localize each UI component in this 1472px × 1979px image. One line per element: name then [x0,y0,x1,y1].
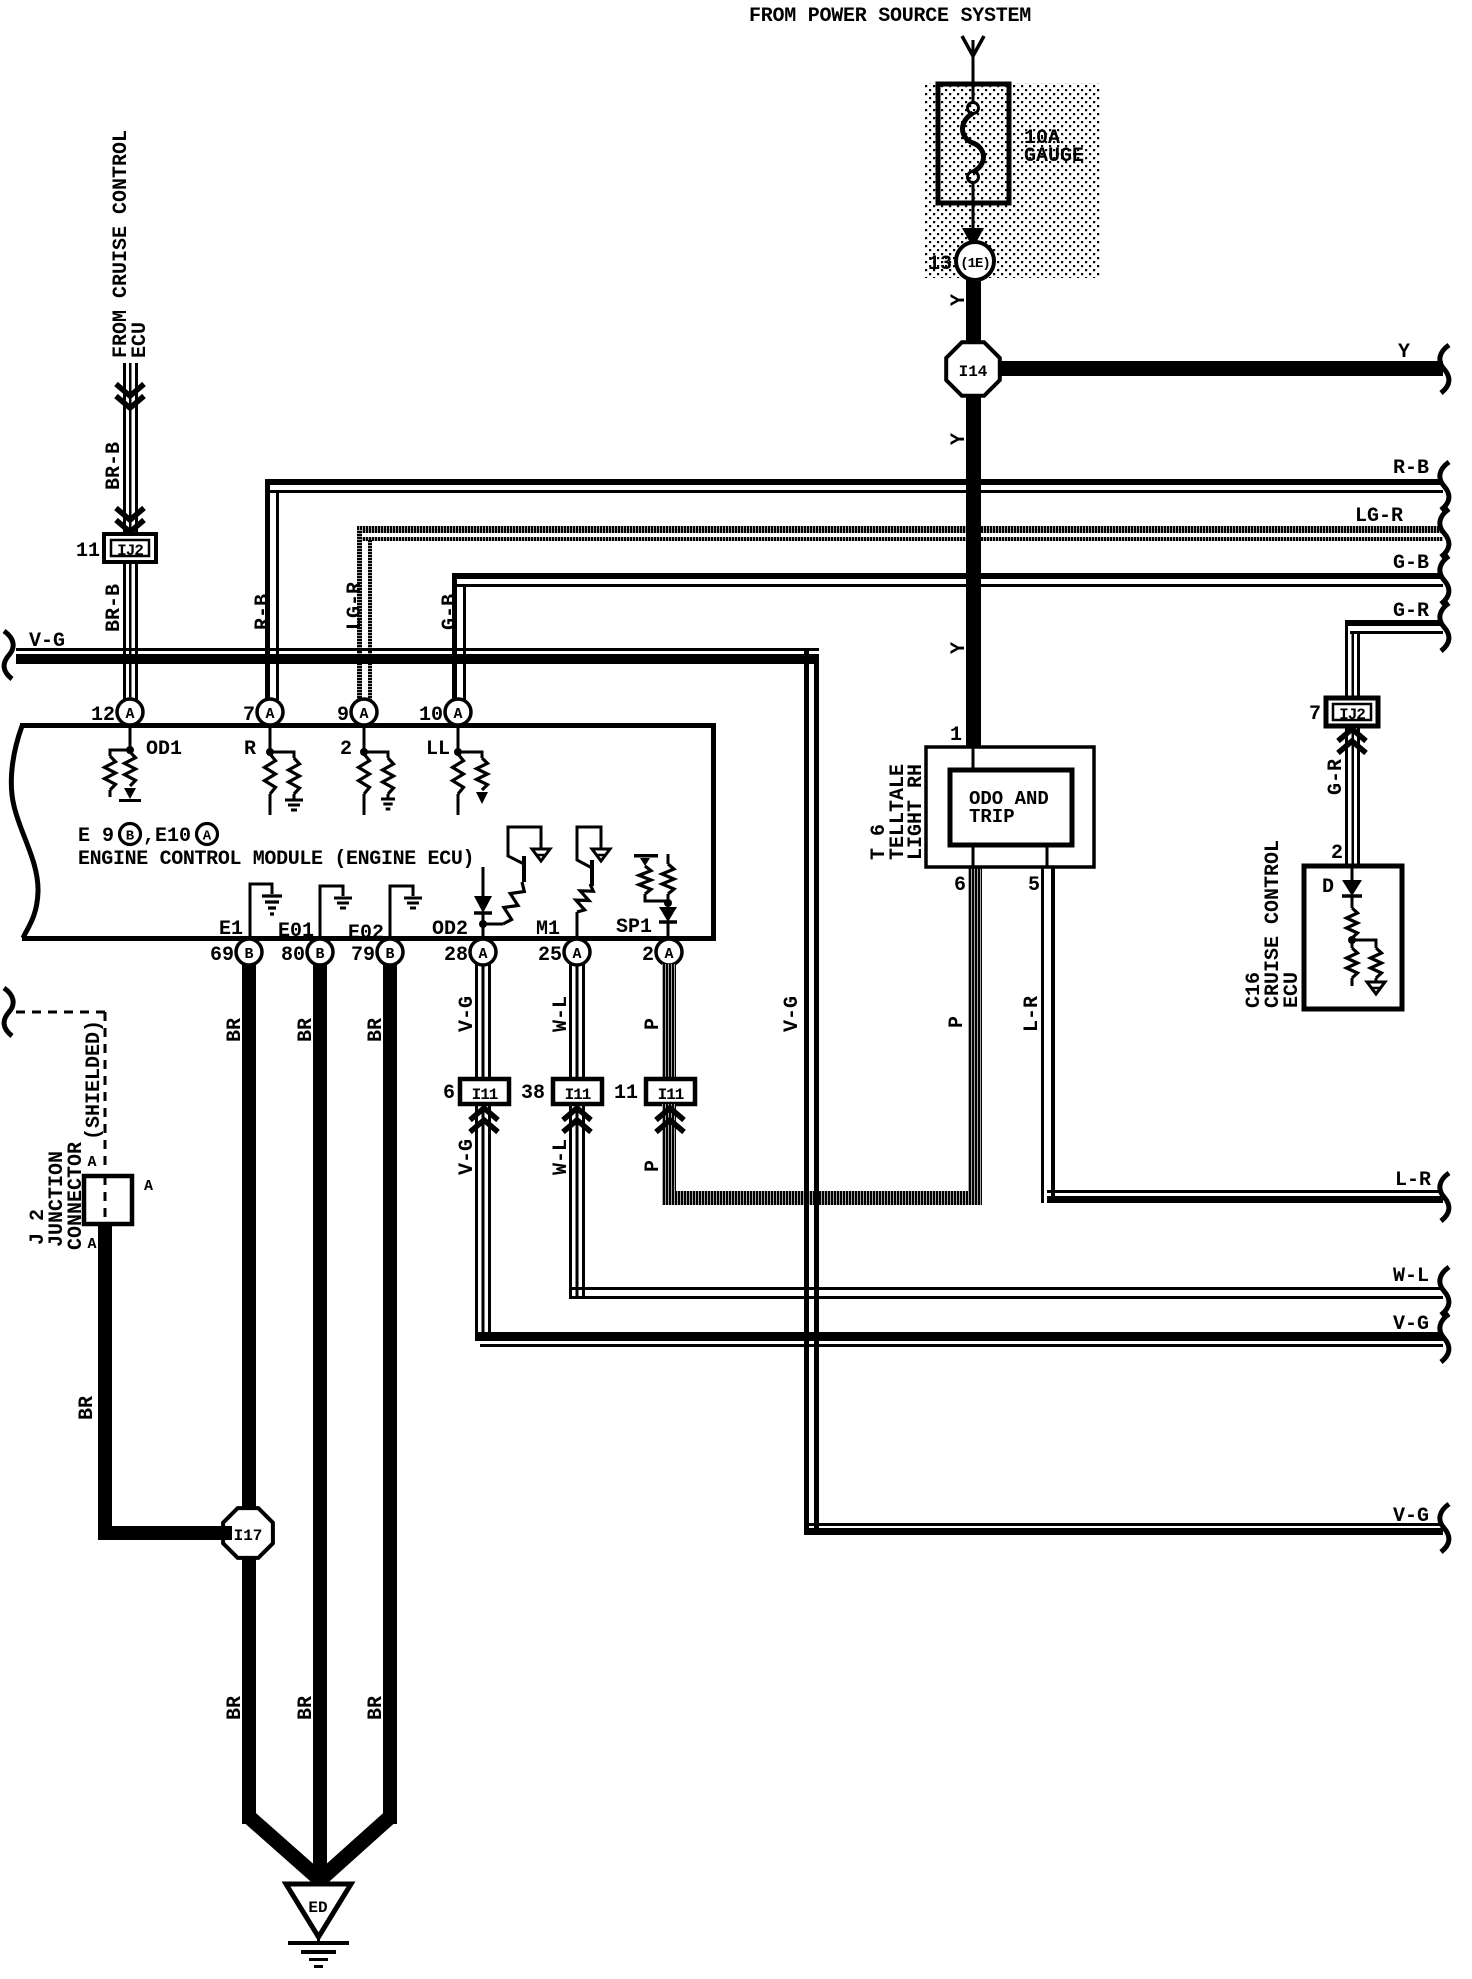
svg-text:E1: E1 [219,918,243,941]
svg-text:IJ2: IJ2 [117,542,143,560]
svg-text:FROM POWER SOURCE SYSTEM: FROM POWER SOURCE SYSTEM [749,5,1031,28]
svg-text:E01: E01 [278,920,314,943]
svg-text:G-R: G-R [1393,600,1429,623]
svg-text:L-R: L-R [1395,1169,1431,1192]
svg-text:G-B: G-B [439,594,462,630]
svg-text:12: 12 [91,704,115,727]
svg-text:80: 80 [281,944,305,967]
wire BR: J2 down to I17 [98,1224,112,1540]
svg-text:Y: Y [1398,341,1410,364]
ECU top pin 7 (A) [269,723,272,752]
svg-text:(SHIELDED): (SHIELDED) [83,1020,106,1140]
svg-text:BR: BR [295,1696,318,1720]
svg-text:A: A [87,1236,96,1253]
wire L-R from telltale pin 5 [1041,867,1044,1203]
odo and trip lamp box [950,770,1072,845]
svg-text:A: A [87,1154,96,1171]
svg-text:I17: I17 [234,1527,263,1545]
svg-text:BR: BR [76,1396,99,1420]
svg-text:28: 28 [444,944,468,967]
svg-text:I11: I11 [472,1086,498,1104]
svg-text:ECU: ECU [129,322,152,358]
shield dashed line [16,1011,105,1014]
svg-text:5: 5 [1028,874,1040,897]
svg-text:11: 11 [614,1082,638,1105]
svg-text:D: D [1322,876,1334,899]
svg-text:(1E): (1E) [960,256,990,272]
wire P from pin 2 through junction I11 (11) [662,964,676,1079]
wire P horizontal to telltale [662,1191,982,1205]
svg-text:BR: BR [365,1696,388,1720]
svg-text:A: A [203,829,212,845]
svg-text:ENGINE CONTROL MODULE (ENGINE: ENGINE CONTROL MODULE (ENGINE ECU) [78,848,474,871]
svg-text:ECU: ECU [1281,972,1304,1008]
wire: feed from power source into fuse (arrow down) [962,36,984,56]
diode inside cruise ECU [1351,866,1354,880]
svg-text:BR: BR [295,1018,318,1042]
svg-text:V-G: V-G [456,1139,479,1175]
wire: fuse to connector 1E (arrow) [972,203,975,232]
svg-text:Y: Y [948,294,971,306]
wire BR from pin 79 down to ED [383,964,397,1824]
svg-text:OD2: OD2 [432,918,468,941]
shaded region around fuse [924,83,1100,278]
wire Y: 1E down to junction I14 [966,279,981,342]
svg-text:BR: BR [224,1696,247,1720]
svg-text:A: A [478,946,487,963]
svg-text:2: 2 [642,944,654,967]
svg-text:9: 9 [337,704,349,727]
svg-text:LG-R: LG-R [344,582,367,630]
svg-text:ED: ED [308,1899,327,1917]
svg-text:38: 38 [521,1082,545,1105]
wire V-G: long vertical down [804,648,809,1530]
svg-text:Y: Y [948,642,971,654]
svg-text:LG-R: LG-R [1355,505,1403,528]
svg-text:A: A [572,946,581,963]
svg-text:P: P [642,1160,665,1172]
svg-text:GAUGE: GAUGE [1024,145,1084,168]
svg-text:A: A [265,706,274,723]
svg-text:B: B [315,946,324,963]
svg-text:A: A [453,706,462,723]
svg-text:11: 11 [76,540,100,563]
svg-text:13: 13 [928,253,952,276]
ECU top pin 9 (A) [363,723,366,752]
svg-text:R-B: R-B [252,594,275,630]
engine control module box [20,723,716,728]
svg-text:V-G: V-G [456,996,479,1032]
fuse 10A GAUGE [938,84,1009,203]
wire BR-B: IJ2 down to ECU pin 12 [123,562,126,700]
svg-text:10: 10 [419,704,443,727]
svg-text:6: 6 [954,874,966,897]
svg-text:A: A [144,1178,153,1195]
svg-text:TRIP: TRIP [969,806,1015,828]
wire G-R: IJ2 down to cruise control ECU pin 2 [1345,726,1348,866]
svg-text:W-L: W-L [1393,1265,1429,1288]
ground ED [286,1884,351,1937]
svg-text:B: B [385,946,394,963]
wire BR-B: from cruise ECU down to IJ2 (11) [123,363,126,533]
wire V-G: from left edge to long vertical [4,631,13,679]
svg-text:V-G: V-G [781,996,804,1032]
ECU top pin 12 (A) [129,723,132,752]
resistor inside cruise ECU [1347,908,1358,938]
svg-text:BR-B: BR-B [103,442,126,490]
svg-text:7: 7 [1309,703,1321,726]
svg-text:7: 7 [243,704,255,727]
svg-text:BR-B: BR-B [103,584,126,632]
svg-text:G-R: G-R [1325,759,1348,795]
wire Y: I14 to right edge [995,361,1443,376]
svg-text:BR: BR [365,1018,388,1042]
svg-text:69: 69 [210,944,234,967]
svg-text:6: 6 [443,1082,455,1105]
svg-text:,E10: ,E10 [143,825,191,848]
svg-text:A: A [664,946,673,963]
wire W-L from pin 25 through junction I11 (38) [569,964,572,1079]
svg-text:P: P [946,1016,969,1028]
svg-text:A: A [125,706,134,723]
wire Y: I14 down to telltale light [966,395,981,747]
wire BR from pin 69 down to I17 and ED [242,964,256,1824]
svg-text:B: B [126,829,135,845]
wire BR from pin 80 down to ED [313,964,327,1888]
svg-text:Y: Y [948,433,971,445]
svg-text:1: 1 [950,724,962,747]
svg-text:W-L: W-L [550,996,573,1032]
svg-text:E02: E02 [348,922,384,945]
wire P up to telltale pin 6 [968,867,982,1205]
branch to ground inside cruise ECU [1352,940,1376,948]
svg-text:LL: LL [426,738,450,761]
svg-text:BR: BR [224,1018,247,1042]
svg-text:M1: M1 [536,918,560,941]
junction I17 [223,1508,273,1558]
svg-text:2: 2 [1331,842,1343,865]
svg-text:I14: I14 [959,363,988,381]
svg-text:2: 2 [340,738,352,761]
left edge break for shield line [4,988,13,1036]
wire V-G from pin 28 through junction I11 (6) [475,964,478,1079]
svg-text:IJ2: IJ2 [1339,706,1365,724]
svg-text:79: 79 [351,944,375,967]
svg-text:L-R: L-R [1021,996,1044,1032]
svg-text:A: A [359,706,368,723]
svg-text:25: 25 [538,944,562,967]
svg-text:R: R [244,738,256,761]
svg-text:B: B [244,946,253,963]
svg-text:P: P [642,1018,665,1030]
ECU top pin 10 (A) [457,723,460,752]
svg-text:I11: I11 [565,1086,591,1104]
svg-text:R-B: R-B [1393,457,1429,480]
svg-text:SP1: SP1 [616,916,652,939]
svg-text:I11: I11 [658,1086,684,1104]
svg-text:OD1: OD1 [146,738,182,761]
svg-text:E 9: E 9 [78,825,114,848]
svg-text:W-L: W-L [550,1139,573,1175]
svg-text:G-B: G-B [1393,552,1429,575]
